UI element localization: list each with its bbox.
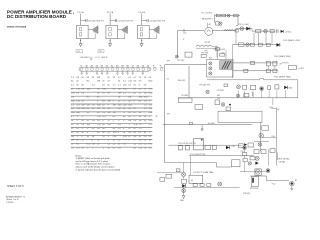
resistor R67 xyxy=(289,66,297,70)
wire drop under R86 xyxy=(277,153,279,161)
indicator DS17 fill xyxy=(244,147,246,149)
svg-text:5%: 5% xyxy=(128,132,131,134)
svg-text:P5-2: P5-2 xyxy=(272,183,276,185)
transistor Q5 xyxy=(244,143,247,146)
wire top rail xyxy=(215,15,240,17)
resistor R55 xyxy=(256,30,261,33)
indicator DS23 xyxy=(248,162,251,165)
wire chain to mov xyxy=(244,162,246,172)
svg-text:1W: 1W xyxy=(107,112,110,114)
wire right stub xyxy=(267,149,269,165)
wire bottom drop xyxy=(183,188,185,196)
connector J1 pins xyxy=(80,68,83,71)
svg-text:5%: 5% xyxy=(97,128,100,130)
resistor R97 xyxy=(250,157,255,160)
connector P8 xyxy=(166,174,172,178)
resistor R76 xyxy=(268,86,271,90)
svg-text:5%: 5% xyxy=(118,124,121,126)
capacitor C110 xyxy=(147,19,148,22)
reference box TP2 xyxy=(98,50,104,53)
svg-text:R41: R41 xyxy=(217,95,220,97)
resistor network box circuit 1 xyxy=(76,25,88,38)
svg-text:130 VAC: 130 VAC xyxy=(279,161,286,164)
resistor R57 xyxy=(239,43,244,46)
off-page arrow circuit 2 xyxy=(109,44,112,47)
wire output drop circuit 3 xyxy=(141,39,143,44)
junction node circuit 1 xyxy=(80,40,81,41)
legend box xyxy=(218,111,262,122)
wire module left edge xyxy=(164,65,166,163)
regulator U2 hatch xyxy=(222,61,231,69)
resistor R82 xyxy=(262,126,269,131)
resistor R74 xyxy=(243,85,247,89)
junction node B xyxy=(183,177,184,178)
indicator DS11 xyxy=(237,85,241,89)
svg-text:X7R: X7R xyxy=(113,132,118,134)
svg-text:TP1: TP1 xyxy=(167,114,170,116)
svg-text:TP7 (4X): TP7 (4X) xyxy=(177,60,185,62)
capacitor C25 xyxy=(277,29,278,32)
svg-text:TP2: TP2 xyxy=(99,51,102,53)
resistor R93 xyxy=(182,179,187,183)
svg-text:TP5 (4X) TP6: TP5 (4X) TP6 xyxy=(199,84,210,86)
indicator DS14 xyxy=(221,103,225,107)
svg-text:X7R: X7R xyxy=(123,136,128,138)
svg-text:PA SUPPLY: PA SUPPLY xyxy=(202,17,213,20)
svg-text:R70: R70 xyxy=(209,58,212,60)
svg-text:TO +24 VDC: TO +24 VDC xyxy=(201,12,213,14)
wire left join xyxy=(235,29,237,45)
wire drop 1 to 24V rail xyxy=(253,33,255,44)
resistor R78 xyxy=(244,94,249,97)
resistor R58 xyxy=(250,43,254,46)
resistor R61 xyxy=(251,61,255,64)
fan B1 xyxy=(290,181,295,186)
regulator U2 body xyxy=(220,61,232,70)
svg-text:C29: C29 xyxy=(217,98,220,100)
inductor L2 xyxy=(224,30,234,31)
connector P7 xyxy=(178,98,192,102)
wire fan gnd xyxy=(291,186,293,189)
svg-text:5%: 5% xyxy=(118,148,121,150)
svg-text:MOV 130V: MOV 130V xyxy=(250,188,259,190)
indicator DS21 fill xyxy=(267,170,269,172)
wire inner vertical xyxy=(188,66,190,98)
resistor R77 xyxy=(275,85,279,89)
wire stub down xyxy=(272,98,274,105)
MOV bar xyxy=(252,178,254,183)
wire rail drop right xyxy=(237,16,239,26)
svg-text:1W: 1W xyxy=(71,136,74,138)
wire band bottom rail xyxy=(178,97,297,99)
wire shelf rail A xyxy=(233,62,278,64)
svg-text:4X GND: 4X GND xyxy=(208,123,215,125)
svg-text:C24: C24 xyxy=(183,32,186,34)
indicator DS6 xyxy=(175,55,178,58)
resistor R54 xyxy=(235,29,238,32)
svg-text:C42: C42 xyxy=(232,146,235,148)
svg-text:P3-1 (+24V): P3-1 (+24V) xyxy=(239,24,250,26)
svg-text:5%: 5% xyxy=(149,148,152,150)
resistor R2A xyxy=(109,28,111,31)
indicator DS7 xyxy=(209,62,212,65)
svg-text:1W: 1W xyxy=(81,104,84,106)
svg-text:ARRANGEMENT #2: ARRANGEMENT #2 xyxy=(6,195,26,198)
resistor R95 xyxy=(200,184,204,187)
junction node circuit 3 xyxy=(141,40,142,41)
resistor network box circuit 3 xyxy=(138,25,150,38)
connector pin stubs xyxy=(81,71,83,74)
wire meter top stub xyxy=(207,23,209,28)
wire drop 4 to 24V rail xyxy=(271,33,273,44)
resistor R56 xyxy=(270,30,274,33)
wire ground rail xyxy=(163,124,252,126)
table rules xyxy=(71,87,153,89)
resistor R100 xyxy=(160,178,165,182)
wire link A xyxy=(267,66,269,69)
resistor R88 xyxy=(185,146,189,150)
svg-text:GND: GND xyxy=(288,88,293,90)
diode CR2 xyxy=(281,30,284,33)
resistor R3A xyxy=(140,28,142,31)
svg-text:5%: 5% xyxy=(123,144,126,146)
svg-text:Notes:: Notes: xyxy=(76,154,83,157)
svg-text:P1-3 A: P1-3 A xyxy=(139,11,146,14)
resistor R1B xyxy=(79,33,81,36)
junction dark xyxy=(229,104,231,106)
resistor R79 xyxy=(215,100,220,105)
resistor R73 xyxy=(224,84,228,87)
svg-text:MODEL ETX0148A: MODEL ETX0148A xyxy=(7,26,27,29)
wire drop 2 to 24V rail xyxy=(257,33,259,44)
relay K4 xyxy=(232,160,240,167)
diode CR3 xyxy=(277,43,280,47)
wire P3 link xyxy=(236,28,252,30)
resistor R91 xyxy=(239,144,243,148)
wire bottom rail B xyxy=(174,187,240,189)
wire to sense xyxy=(282,62,289,64)
svg-text:5%: 5% xyxy=(144,100,147,102)
indicator DS4 xyxy=(264,29,268,33)
svg-text:1 BLGND: 1 BLGND xyxy=(80,57,89,59)
wire box to transistor circuit 1 xyxy=(88,29,92,31)
svg-text:1W: 1W xyxy=(97,77,100,79)
wire label line xyxy=(88,56,101,58)
wire stub 4X xyxy=(271,108,276,110)
relay K1 xyxy=(189,175,203,183)
wire input drop circuit 3 xyxy=(141,14,143,26)
svg-text:1W: 1W xyxy=(97,81,100,83)
connector J1 body xyxy=(79,67,151,71)
svg-text:affects each of the divider ci: affects each of the divider circuits abo… xyxy=(76,166,116,169)
resistor R52 xyxy=(234,14,239,17)
svg-text:P4-1 (SHELF +24V): P4-1 (SHELF +24V) xyxy=(283,40,300,42)
svg-text:1W: 1W xyxy=(92,144,95,146)
ground fan xyxy=(290,189,293,191)
resistor R51 xyxy=(222,14,226,17)
resistor R99 xyxy=(243,158,247,161)
wire stub U2 top b xyxy=(225,50,227,59)
relay K2 xyxy=(185,52,192,57)
relay K3 xyxy=(195,105,203,110)
band component stubs xyxy=(238,91,240,98)
wire link B xyxy=(274,66,276,69)
svg-text:CR8 (4X): CR8 (4X) xyxy=(243,193,250,195)
svg-text:MOV 130 VAC: MOV 130 VAC xyxy=(278,157,290,160)
wire capacitor tap circuit 3 xyxy=(142,20,147,22)
junction node A xyxy=(183,39,184,40)
resistor R62 xyxy=(266,61,270,66)
svg-text:C18 (4X) P24V TP1: C18 (4X) P24V TP1 xyxy=(88,21,104,23)
wire chain vertical xyxy=(260,122,262,151)
resistor R72 xyxy=(201,54,206,57)
svg-text:+24 VDC TO FAN TRAY: +24 VDC TO FAN TRAY xyxy=(193,171,214,174)
wire output drop circuit 2 xyxy=(109,39,111,44)
wire reg right xyxy=(232,45,234,78)
wire stub U2 top a xyxy=(216,50,218,59)
svg-text:+5 VDC: +5 VDC xyxy=(298,68,305,70)
wire cluster join xyxy=(244,149,246,158)
wire chain cross xyxy=(254,141,269,143)
resistor R53 xyxy=(216,22,219,25)
svg-text:+5 VDC: +5 VDC xyxy=(285,31,292,33)
indicator DS20 xyxy=(255,156,259,160)
svg-text:U1: U1 xyxy=(167,79,169,81)
regulator U3 xyxy=(194,139,204,150)
indicator DS12 fill xyxy=(261,88,263,90)
wire long vertical right xyxy=(275,108,277,166)
off-page arrow circuit 3 xyxy=(140,44,143,47)
resistor R101 xyxy=(220,54,225,57)
svg-text:(Sheet 7 of 4): (Sheet 7 of 4) xyxy=(6,198,19,201)
svg-text:4X GND: 4X GND xyxy=(181,95,188,97)
resistor R3B xyxy=(140,33,142,36)
resistor R50 xyxy=(216,14,220,17)
diode CR6 xyxy=(182,184,185,187)
resistor R71 xyxy=(215,48,219,51)
resistor R1A xyxy=(79,28,81,31)
svg-text:X7R: X7R xyxy=(149,120,154,122)
wire mid cluster rail xyxy=(168,144,241,146)
wire transistor emitter down circuit 3 xyxy=(149,34,156,39)
ground arrow xyxy=(201,129,203,131)
wire drop 3 to 24V rail xyxy=(265,33,267,44)
svg-text:P1-1 A: P1-1 A xyxy=(77,11,84,14)
resistor R59 xyxy=(258,43,262,46)
resistor R90 xyxy=(212,145,216,149)
svg-text:SHEET 5 OF 5: SHEET 5 OF 5 xyxy=(7,185,24,188)
svg-text:1W: 1W xyxy=(97,108,100,110)
capacitor C18 xyxy=(86,19,87,22)
resistor R96 xyxy=(207,184,211,187)
svg-text:C20 (4X) P24V TP3: C20 (4X) P24V TP3 xyxy=(149,21,165,23)
wire P3 to rail xyxy=(251,29,253,32)
resistor R66 xyxy=(273,69,277,72)
U3 pin dot 1 xyxy=(201,139,203,141)
indicator DS22 xyxy=(255,169,260,174)
svg-text:K1: K1 xyxy=(191,180,193,182)
indicator DS1 xyxy=(227,14,230,17)
wire corner P3 xyxy=(236,24,238,26)
MOV box xyxy=(251,176,258,186)
indicator DS18 xyxy=(182,173,186,177)
svg-text:TP7: TP7 xyxy=(167,61,170,63)
wire band right edge xyxy=(297,80,299,98)
svg-text:1. R6967 (10k) on Exciter pcb: 1. R6967 (10k) on Exciter pcb pulls xyxy=(76,157,111,160)
indicator DS12 xyxy=(260,87,264,91)
wire mov feed xyxy=(240,171,266,173)
svg-text:1W: 1W xyxy=(113,104,116,106)
svg-text:5%: 5% xyxy=(133,81,136,83)
wire +24V shelf rail xyxy=(233,44,280,46)
indicator DS5 xyxy=(246,43,250,47)
resistor R85 xyxy=(261,150,266,154)
svg-text:C19: C19 xyxy=(77,51,80,53)
ground symbol xyxy=(90,59,92,61)
indicator DS15 xyxy=(259,133,264,138)
reference box C19 xyxy=(76,50,83,53)
svg-text:C31 R40: C31 R40 xyxy=(217,90,224,92)
svg-text:P4-2 (SHELF GND): P4-2 (SHELF GND) xyxy=(274,56,291,58)
wire meter feed left xyxy=(178,29,204,31)
svg-text:P1-2 A: P1-2 A xyxy=(107,11,114,14)
capacitor C27 xyxy=(252,92,253,96)
indicator DS8 xyxy=(209,67,212,70)
svg-text:C19 (4X) P24V TP2: C19 (4X) P24V TP2 xyxy=(118,21,134,23)
transistor Q2 xyxy=(122,26,128,34)
svg-text:R12 C40 U2 R13 C41: R12 C40 U2 R13 C41 xyxy=(178,143,195,145)
wire box to transistor circuit 2 xyxy=(118,29,122,31)
svg-text:1W: 1W xyxy=(107,100,110,102)
off-page arrow circuit 1 xyxy=(79,44,82,47)
resistor R86 xyxy=(270,149,275,153)
wire transistor emitter down circuit 1 xyxy=(88,34,95,39)
svg-text:5%: 5% xyxy=(139,81,142,83)
wire K1 feed xyxy=(189,156,191,176)
svg-text:X7R: X7R xyxy=(133,124,138,126)
resistor R92 xyxy=(176,169,180,172)
resistor R94 xyxy=(193,184,197,187)
wire meter to P3 xyxy=(212,30,236,32)
svg-text:R44 (4X): R44 (4X) xyxy=(178,80,186,82)
wire left drop xyxy=(177,30,179,58)
wire TP vertical xyxy=(216,46,218,57)
indicator DS19 xyxy=(218,182,222,186)
wire fan feed xyxy=(250,176,289,181)
resistor R63 xyxy=(273,61,277,66)
wire bottom rail A xyxy=(189,155,254,157)
svg-text:TP3 4X: TP3 4X xyxy=(204,42,211,44)
svg-text:1W: 1W xyxy=(113,112,116,114)
transistor Q1 xyxy=(92,26,98,34)
svg-text:P5-1 (SHELF 24V): P5-1 (SHELF 24V) xyxy=(190,154,205,156)
resistor R83 xyxy=(248,143,254,147)
indicator DS13 xyxy=(237,94,240,97)
svg-text:up the X3 logic line to 5.2 V: up the X3 logic line to 5.2 V when xyxy=(76,160,109,163)
indicator DS9 xyxy=(209,72,212,75)
inductor L1 xyxy=(196,45,212,47)
wire input drop circuit 1 xyxy=(80,14,82,26)
capacitor C19 xyxy=(115,19,116,22)
diode CR4 xyxy=(284,86,287,89)
fuse F1 xyxy=(183,29,185,31)
indicator DS17 xyxy=(243,146,247,150)
wire capacitor tap circuit 2 xyxy=(110,20,115,22)
indicator DS16 xyxy=(258,143,262,147)
wire transistor emitter down circuit 2 xyxy=(118,34,125,39)
svg-text:5%: 5% xyxy=(92,104,95,106)
resistor R98 xyxy=(242,153,247,156)
svg-text:C50: C50 xyxy=(241,151,244,153)
svg-text:C12069: C12069 xyxy=(6,202,14,204)
resistor R65 xyxy=(266,69,270,72)
wire capacitor tap circuit 1 xyxy=(81,20,86,22)
wire inductor out xyxy=(196,47,217,49)
resistor R80 xyxy=(226,107,231,110)
indicator DS24 xyxy=(182,189,186,193)
resistor R89 xyxy=(205,145,211,149)
diode CR1 xyxy=(246,27,250,31)
wire left feed bottom xyxy=(157,172,184,174)
wire +5V rail xyxy=(252,30,275,32)
wire bottom step xyxy=(165,163,232,167)
wire cluster feed xyxy=(183,163,185,173)
indicator DS21 xyxy=(266,169,270,173)
connector P2 pin xyxy=(153,68,156,71)
wire output drop circuit 1 xyxy=(80,39,82,44)
off-page arrow bottom xyxy=(182,196,185,199)
wire box to transistor circuit 3 xyxy=(149,29,153,31)
resistor R2B xyxy=(109,33,111,36)
resistor R75 xyxy=(251,85,256,89)
svg-text:B1: B1 xyxy=(295,180,297,182)
diode CR5 xyxy=(226,146,229,150)
regulator U2 outline xyxy=(207,60,234,78)
indicator DS2 xyxy=(219,22,222,25)
svg-text:5%: 5% xyxy=(144,136,147,138)
junction node circuit 2 xyxy=(110,40,111,41)
wire chain to vertical xyxy=(263,137,277,139)
wire input drop circuit 2 xyxy=(109,14,111,26)
svg-text:GND B: GND B xyxy=(101,57,108,59)
svg-text:X7R: X7R xyxy=(149,89,154,91)
svg-text:there is no PA present. This r: there is no PA present. This resistor xyxy=(76,163,111,166)
wire gnd stub xyxy=(201,125,203,129)
svg-text:DC DISTRIBUTION BOARD: DC DISTRIBUTION BOARD xyxy=(7,14,67,19)
transistor Q6 xyxy=(255,162,258,165)
relay K5 xyxy=(255,169,262,175)
resistor R60 xyxy=(266,43,270,46)
wire band top edge xyxy=(207,79,298,80)
resistor R84 xyxy=(254,150,259,154)
svg-text:1W: 1W xyxy=(128,120,131,122)
resistor R81 xyxy=(190,122,193,124)
resistor R64 xyxy=(244,69,248,72)
svg-text:2. Ignore indicates that the p: 2. Ignore indicates that the part is not… xyxy=(76,168,122,171)
indicator DS10 xyxy=(206,90,209,93)
wire module top edge xyxy=(165,64,207,66)
transistor Q3 xyxy=(153,26,159,34)
wire feed drop xyxy=(214,14,216,23)
connector P3 pin xyxy=(160,68,163,71)
ammeter M1 xyxy=(205,27,213,35)
resistor network box circuit 2 xyxy=(106,25,118,38)
wire shelf rail B xyxy=(233,70,278,72)
svg-text:P4-3 (SHELF GND): P4-3 (SHELF GND) xyxy=(274,76,291,78)
indicator DS3 xyxy=(240,27,244,31)
resistor R87 xyxy=(178,146,182,150)
